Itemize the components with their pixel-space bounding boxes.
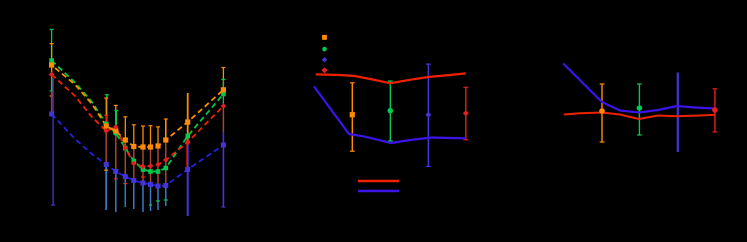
right panel red solid line — [564, 113, 715, 120]
right panel red error bar — [714, 89, 716, 132]
left panel error bar column 9 — [165, 119, 167, 140]
left panel orange markers — [49, 62, 54, 67]
middle panel red solid line — [316, 73, 466, 83]
middle panel legend red line sample — [358, 180, 399, 182]
left panel green markers — [49, 58, 54, 63]
right panel blue error bar — [677, 73, 679, 153]
left panel error bar column 11 — [222, 68, 224, 91]
left panel error bar column 3 — [115, 105, 117, 131]
middle panel scatter markers top-left — [322, 35, 327, 40]
right panel orange error bar — [601, 84, 603, 142]
left panel error bar column 2 — [106, 95, 108, 124]
left panel error bar column 1 — [51, 29, 53, 60]
middle panel blue solid line — [314, 86, 466, 143]
left panel green dashed curve — [52, 61, 224, 172]
middle panel blue error bar — [427, 64, 429, 166]
middle panel red marker — [463, 110, 469, 116]
middle panel green marker — [388, 108, 394, 114]
left panel error bar column 6 — [142, 126, 144, 147]
middle panel red error bar — [465, 87, 467, 140]
middle panel blue marker — [425, 112, 431, 118]
middle panel legend blue line sample — [358, 190, 399, 192]
right panel blue solid line — [563, 64, 715, 113]
left panel blue markers — [49, 112, 54, 117]
left panel error bar column 4 — [124, 117, 126, 140]
middle panel green error bar — [389, 81, 391, 141]
left panel red dashed curve — [52, 75, 224, 167]
left panel orange dashed curve — [52, 65, 224, 147]
left panel blue dashed curve — [52, 114, 224, 186]
right panel red marker — [712, 107, 718, 113]
left panel red markers — [49, 72, 55, 78]
right panel green error bar — [638, 84, 640, 135]
middle panel orange error bar — [351, 83, 353, 151]
middle panel orange marker — [350, 112, 355, 117]
left panel error bar column 5 — [133, 125, 135, 147]
left panel error bar column 10 — [187, 93, 189, 140]
right panel green marker — [637, 105, 643, 111]
right panel orange marker — [599, 108, 605, 114]
left panel error bar column 8 — [157, 127, 159, 146]
left panel error bar column 7 — [150, 126, 152, 147]
